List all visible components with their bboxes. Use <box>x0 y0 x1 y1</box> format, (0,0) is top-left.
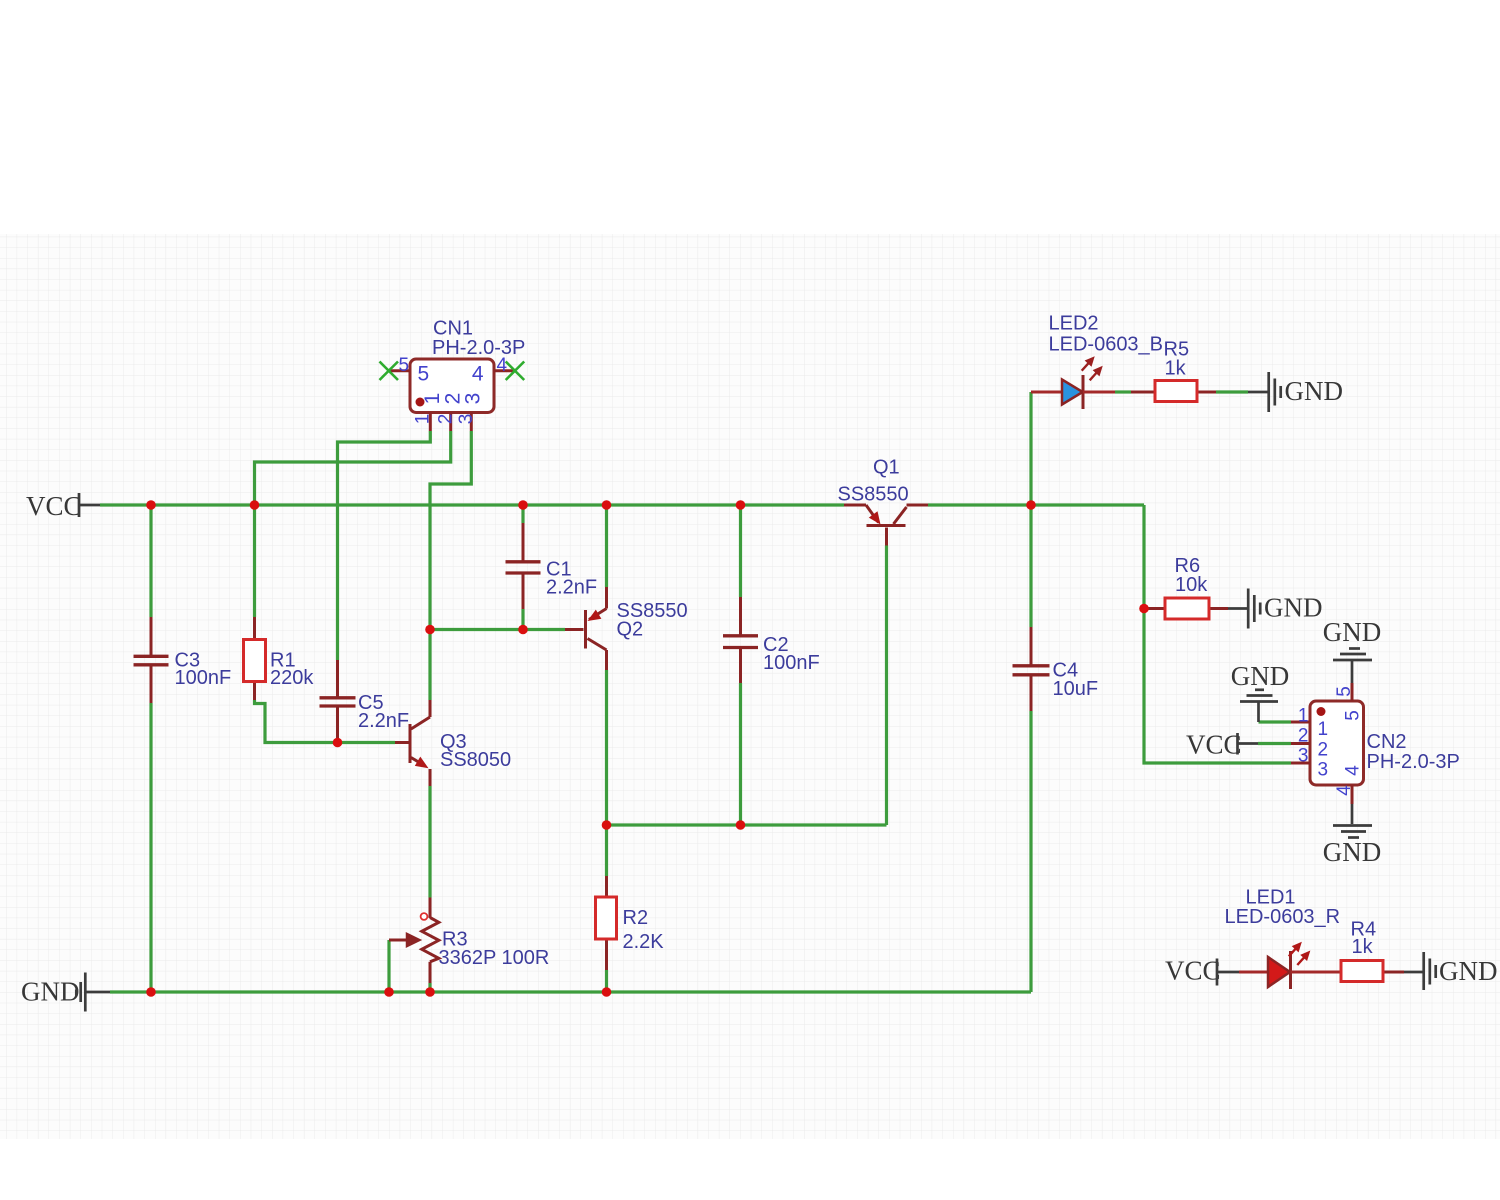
svg-text:2: 2 <box>1318 740 1329 761</box>
wire right column to CN2 pin3 <box>1144 505 1291 763</box>
wire C2 top <box>739 505 742 597</box>
svg-text:5: 5 <box>399 355 410 376</box>
wire VCC rail right <box>928 503 1144 506</box>
capacitor C5 <box>320 660 410 743</box>
node VCC/C2 <box>736 500 746 510</box>
CN1 pin 3 <box>456 393 484 431</box>
potentiometer R3 3362P <box>389 898 549 984</box>
node Q2c/row <box>602 820 612 830</box>
svg-text:2.2nF: 2.2nF <box>546 577 597 599</box>
no-connect X on CN1 pin 5 <box>380 362 399 381</box>
resistor R6 <box>1144 555 1228 619</box>
svg-text:1k: 1k <box>1352 936 1374 958</box>
wire GND rail <box>110 990 1031 993</box>
wire Q1 base down <box>885 546 888 826</box>
power port VCC at LED1 <box>1165 956 1239 986</box>
node VCC/C3 <box>146 500 156 510</box>
wire LED2 to R5 <box>1115 390 1131 393</box>
wire R2 bottom <box>605 970 608 992</box>
connector CN1 PH-2.0-3P <box>410 318 525 413</box>
power port VCC at CN2 pin 2 <box>1186 730 1258 760</box>
svg-text:GND: GND <box>1285 376 1344 406</box>
node VCC/R1 <box>250 500 260 510</box>
wire C3 bottom to GND rail <box>149 703 152 992</box>
connector CN2 PH-2.0-3P <box>1310 701 1460 785</box>
svg-text:PH-2.0-3P: PH-2.0-3P <box>432 337 525 359</box>
CN2 pin 3 <box>1291 746 1328 781</box>
svg-text:PH-2.0-3P: PH-2.0-3P <box>1367 751 1460 773</box>
ground GND at R5 <box>1248 372 1343 412</box>
svg-text:VCC: VCC <box>26 491 82 521</box>
wire R1 bottom jog to Q3 base <box>255 700 396 743</box>
CN1 pin 4 <box>472 355 515 386</box>
svg-text:LED2: LED2 <box>1049 313 1099 335</box>
svg-text:10uF: 10uF <box>1053 678 1099 700</box>
CN2 pin 2 <box>1291 726 1328 761</box>
svg-text:5: 5 <box>1334 686 1355 697</box>
transistor Q1 SS8550 <box>838 457 929 546</box>
resistor R1 <box>244 617 315 700</box>
node GND/C3 <box>146 987 156 997</box>
capacitor C4 <box>1013 627 1099 711</box>
svg-text:3: 3 <box>1298 746 1309 767</box>
svg-text:LED-0603_R: LED-0603_R <box>1225 906 1341 928</box>
node VCC/C4 <box>1026 500 1036 510</box>
resistor R2 <box>596 876 665 970</box>
wire C4 top <box>1029 505 1032 627</box>
CN2 pin 5 <box>1334 683 1364 721</box>
svg-text:Q1: Q1 <box>873 457 900 479</box>
svg-text:LED-0603_B: LED-0603_B <box>1049 334 1164 356</box>
svg-text:5: 5 <box>1342 710 1363 721</box>
ground GND at R6 <box>1228 589 1323 629</box>
wire Q2 collector down <box>605 670 608 876</box>
svg-text:3: 3 <box>461 393 484 405</box>
svg-text:100nF: 100nF <box>175 667 232 689</box>
node C1/Q2 base <box>518 625 528 635</box>
ground GND at left <box>21 973 110 1012</box>
CN1 pin 2 <box>436 393 465 431</box>
wire C1 bottom <box>521 609 524 630</box>
resistor R4 <box>1341 919 1404 982</box>
wire C2 bottom <box>739 683 742 825</box>
svg-text:1: 1 <box>1318 719 1329 740</box>
svg-text:4: 4 <box>472 363 484 386</box>
CN1 pin 5 <box>389 355 429 386</box>
wire CN2 pin1 <box>1259 720 1292 723</box>
svg-text:SS8550: SS8550 <box>838 484 909 506</box>
svg-text:4: 4 <box>497 355 508 376</box>
wire C4 bottom to GND rail <box>1029 711 1032 992</box>
ground GND at R4 <box>1404 952 1498 990</box>
wire LED2 column <box>1029 392 1032 505</box>
LED1 LED-0603_R <box>1225 887 1342 990</box>
svg-text:R2: R2 <box>623 907 649 929</box>
svg-text:GND: GND <box>1439 956 1498 986</box>
svg-text:3362P 100R: 3362P 100R <box>439 947 550 969</box>
transistor Q3 SS8050 <box>395 700 511 786</box>
wire VCC rail left <box>100 503 844 506</box>
svg-text:3: 3 <box>1318 760 1329 781</box>
svg-text:1: 1 <box>1298 706 1309 727</box>
node Q2 base branch <box>425 625 435 635</box>
svg-text:GND: GND <box>1323 617 1382 647</box>
wire CN2 pin2 <box>1258 742 1291 745</box>
CN2 pin 1 <box>1291 706 1328 741</box>
node C2/row <box>736 820 746 830</box>
wire R3 wiper down <box>387 940 390 992</box>
CN1 pin 1 <box>413 393 445 431</box>
transistor Q2 SS8550 <box>565 587 688 670</box>
svg-text:VCC: VCC <box>1165 956 1221 986</box>
svg-text:1: 1 <box>413 414 434 425</box>
svg-text:3: 3 <box>456 414 477 425</box>
wire R1 top <box>253 505 256 617</box>
power port VCC at left <box>26 491 100 521</box>
no-connect X on CN1 pin 4 <box>506 362 525 381</box>
wire horizontal node row <box>607 823 887 826</box>
svg-text:220k: 220k <box>270 667 314 689</box>
svg-text:4: 4 <box>1342 765 1363 776</box>
node VCC/Q2e <box>602 500 612 510</box>
wire CN1 pin1 to C5 <box>338 431 431 660</box>
wire C1 top <box>521 505 524 523</box>
svg-text:VCC: VCC <box>1186 730 1242 760</box>
ground GND at CN2 pin 1 <box>1231 661 1290 722</box>
wire Q2 emitter to VCC <box>605 505 608 587</box>
wire C3 top <box>149 505 152 617</box>
wire R5 to GND <box>1216 390 1248 393</box>
node VCC/C1 <box>518 500 528 510</box>
svg-text:GND: GND <box>1323 837 1382 867</box>
svg-text:GND: GND <box>21 977 80 1007</box>
wire Q3 emitter to R3 <box>428 786 431 898</box>
svg-text:4: 4 <box>1334 785 1355 796</box>
capacitor C1 <box>506 523 598 609</box>
node R6 branch <box>1139 604 1149 614</box>
resistor R5 <box>1131 339 1216 402</box>
svg-text:Q2: Q2 <box>617 619 644 641</box>
CN2 pin 4 <box>1334 765 1364 804</box>
capacitor C3 <box>134 617 232 703</box>
LED2 LED-0603_B <box>1031 313 1163 410</box>
ground GND at CN2 pin 4 <box>1323 804 1382 867</box>
svg-text:1k: 1k <box>1165 358 1187 380</box>
svg-text:2.2nF: 2.2nF <box>358 710 409 732</box>
wire R3 bottom <box>428 983 431 992</box>
svg-text:2.2K: 2.2K <box>623 931 665 953</box>
node GND/wiper <box>384 987 394 997</box>
node GND/R2 <box>602 987 612 997</box>
node Q3 base/C5 <box>333 738 343 748</box>
wire CN1 pin2 to VCC <box>255 431 451 505</box>
svg-text:CN2: CN2 <box>1367 731 1407 753</box>
wire CN1 pin3 to Q3 collector <box>430 431 471 700</box>
svg-text:5: 5 <box>418 363 430 386</box>
node GND/R3 <box>425 987 435 997</box>
svg-text:SS8050: SS8050 <box>440 749 511 771</box>
capacitor C2 <box>723 597 820 683</box>
wire node to Q2 base <box>430 628 565 631</box>
svg-text:2: 2 <box>1298 726 1309 747</box>
ground GND at CN2 pin 5 <box>1323 617 1382 683</box>
svg-text:GND: GND <box>1264 593 1323 623</box>
svg-text:10k: 10k <box>1175 574 1208 596</box>
svg-text:2: 2 <box>436 414 457 425</box>
svg-text:100nF: 100nF <box>763 652 820 674</box>
svg-text:GND: GND <box>1231 661 1290 691</box>
